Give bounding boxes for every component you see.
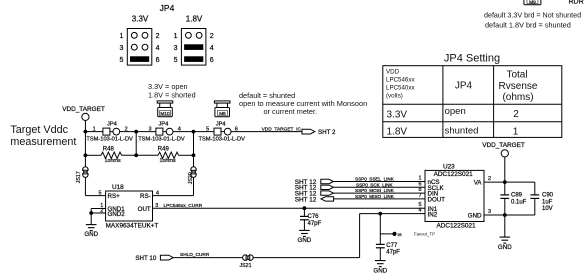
svg-text:GND2: GND2 [108, 211, 126, 218]
JP4 3.3V pin 4 circle [142, 44, 148, 50]
ground symbol U23 [500, 237, 511, 243]
svg-text:10V: 10V [542, 206, 553, 212]
junction dot VA/C89 [503, 180, 507, 184]
svg-text:2: 2 [210, 33, 214, 40]
svg-text:JS17: JS17 [76, 171, 82, 183]
U18 pin 2 GND2 [91, 212, 105, 214]
resistor R48 [101, 152, 122, 158]
JP4 3.3V shunt on pins 5-6 [130, 56, 149, 62]
junction dot drop A/top rail [134, 130, 138, 134]
svg-text:TSM-103-01-L-DV: TSM-103-01-L-DV [86, 136, 133, 142]
svg-text:2: 2 [125, 126, 128, 132]
wire down to ground [504, 215, 506, 237]
svg-text:JS20: JS20 [188, 172, 194, 184]
svg-text:SHT 10: SHT 10 [135, 255, 156, 262]
svg-text:MAX9634TEUK+T: MAX9634TEUK+T [106, 222, 159, 229]
wire VA rail [484, 181, 535, 183]
svg-text:VA: VA [474, 180, 483, 187]
svg-text:ADC122S021: ADC122S021 [437, 223, 477, 230]
svg-text:3: 3 [488, 209, 491, 215]
wire SSP0_SCK_LINK [334, 186, 426, 188]
junction dot VDD_TARGET/top rail [84, 130, 88, 134]
connector JP4 3.3V block outline [127, 29, 152, 66]
svg-text:GND: GND [498, 244, 512, 251]
test point VDD_TARGET circle (left) [82, 113, 89, 120]
jumper M9 (cut off at top edge) [524, 0, 541, 6]
junction dot U18 gnd [89, 211, 93, 215]
svg-text:U23: U23 [443, 163, 455, 170]
wire VDD_TARGET down to VA [504, 157, 506, 182]
svg-text:RDRV: RDRV [569, 0, 584, 5]
resistor R49 [158, 152, 179, 158]
svg-text:default 3.3V brd = Not shunted: default 3.3V brd = Not shunted [484, 12, 581, 20]
svg-text:C89: C89 [511, 192, 523, 198]
junction dot left/lower rail [84, 153, 88, 157]
adc U23 box [425, 170, 484, 221]
svg-text:SSP0_SCK_LINK: SSP0_SCK_LINK [356, 182, 393, 187]
wire SSP0_MISO_LINK [334, 198, 425, 200]
test point Favout_TP stub [380, 232, 401, 237]
svg-text:1ohms: 1ohms [160, 158, 176, 164]
wire SSP0_MOSI_LINK [334, 192, 426, 194]
svg-text:1: 1 [513, 127, 519, 138]
svg-text:4: 4 [418, 208, 421, 214]
svg-text:VDD_TARGET_IC: VDD_TARGET_IC [262, 127, 302, 133]
solder jumper JS20 [188, 167, 197, 185]
svg-text:SHT 12: SHT 12 [295, 196, 317, 203]
svg-text:SSP0_MOSI_LINK: SSP0_MOSI_LINK [355, 188, 395, 193]
wire VDD_TARGET to top rail [84, 121, 86, 132]
svg-text:DOUT: DOUT [428, 197, 446, 204]
JP4 1.8V pin 2 circle [196, 32, 202, 38]
wire OUT to U23 IN1 [153, 207, 426, 209]
jumper JP4 pins 1-2 on rail [93, 121, 128, 135]
jumper JP4 pins 5-6 on rail [206, 121, 238, 135]
svg-text:ADC122S021: ADC122S021 [434, 171, 474, 178]
svg-text:1: 1 [119, 33, 123, 40]
junction dot GND rail [503, 213, 507, 217]
jumper shunt symbol M8 [214, 101, 230, 117]
svg-text:C77: C77 [386, 243, 398, 249]
capacitor C90 [530, 182, 553, 215]
wire left vertical drop [84, 132, 86, 196]
svg-text:R48: R48 [103, 147, 115, 153]
svg-text:4: 4 [156, 191, 159, 197]
junction dot drop A/lower rail [134, 153, 138, 157]
svg-text:OUT: OUT [138, 206, 151, 213]
svg-text:JP4 Setting: JP4 Setting [444, 52, 500, 64]
svg-text:0.1uF: 0.1uF [511, 199, 527, 205]
svg-text:3: 3 [174, 45, 178, 52]
svg-text:measurement: measurement [10, 136, 76, 148]
svg-text:IN2: IN2 [428, 211, 438, 218]
connector JP4 1.8V block outline [181, 29, 206, 66]
U18 pin 1 GND1 [91, 208, 105, 210]
svg-text:7: 7 [418, 193, 421, 199]
svg-text:RS+: RS+ [108, 193, 121, 200]
wire top rail [85, 131, 302, 133]
junction dot drop B/top rail [192, 130, 196, 134]
op-amp U18 current monitor box [106, 191, 153, 221]
svg-text:1uF: 1uF [542, 199, 553, 205]
wire vertical drop A [135, 132, 137, 156]
svg-text:6: 6 [235, 126, 238, 132]
wire R48 to drop A [122, 154, 158, 156]
svg-text:VDD_TARGET: VDD_TARGET [62, 106, 105, 113]
svg-text:1.8V: 1.8V [387, 126, 408, 137]
svg-text:M8: M8 [219, 111, 226, 117]
svg-text:JP4: JP4 [160, 3, 175, 13]
junction dot drop B/lower rail [192, 153, 196, 157]
svg-text:or current meter.: or current meter. [264, 107, 318, 116]
wire SHLD_CURR [174, 257, 360, 259]
svg-text:JP4: JP4 [455, 81, 473, 92]
svg-text:1: 1 [93, 126, 96, 132]
JP4 3.3V pin 1 circle [131, 32, 137, 38]
jumper shunt symbol M10 [157, 101, 173, 117]
off-page arrow SHT 2 [302, 129, 315, 134]
solder jumper JS21 [239, 254, 253, 268]
svg-text:1ohms: 1ohms [105, 158, 121, 164]
capacitor C76 [300, 206, 322, 230]
ground symbol U18 [86, 225, 97, 231]
JP4 3.3V pin 2 circle [142, 32, 148, 38]
svg-text:JP4: JP4 [107, 121, 117, 127]
svg-text:1.8V = shorted: 1.8V = shorted [148, 91, 196, 100]
capacitor C89 [500, 182, 526, 215]
svg-text:47pF: 47pF [386, 250, 400, 256]
test point VDD_TARGET circle (right) [501, 150, 508, 157]
ground symbol C77 [375, 261, 386, 267]
JP4 1.8V pin 1 circle [186, 32, 192, 38]
svg-text:C90: C90 [542, 192, 554, 198]
jumper JP4 pins 3-4 on rail [148, 121, 180, 135]
svg-text:3: 3 [119, 45, 123, 52]
svg-text:RS-: RS- [140, 193, 151, 200]
svg-text:1.8V: 1.8V [186, 15, 203, 24]
svg-text:5: 5 [174, 57, 178, 64]
wire R49 to drop B [179, 154, 194, 156]
svg-text:JP4: JP4 [216, 121, 226, 127]
svg-text:C76: C76 [308, 214, 320, 220]
svg-text:4: 4 [156, 45, 160, 52]
svg-text:3.3V: 3.3V [387, 109, 408, 120]
svg-text:6: 6 [156, 57, 160, 64]
wire vertical drop B through JS20 [193, 132, 195, 196]
svg-text:5: 5 [206, 126, 209, 132]
wire into U18 RS+ [85, 195, 105, 197]
svg-text:SHT 2: SHT 2 [318, 129, 336, 136]
svg-text:2: 2 [513, 109, 519, 120]
svg-text:2: 2 [488, 176, 491, 182]
svg-text:3.3V: 3.3V [132, 15, 149, 24]
wire IN2 [360, 213, 425, 215]
svg-text:GND: GND [84, 231, 98, 238]
capacitor C77 [376, 212, 400, 261]
svg-text:SSP0_MISO_LINK: SSP0_MISO_LINK [355, 194, 395, 199]
solder jumper JS17 [76, 167, 89, 184]
svg-text:TSM-103-01-L-DV: TSM-103-01-L-DV [199, 136, 246, 142]
svg-text:LPC546xx_CURR: LPC546xx_CURR [164, 203, 203, 209]
svg-text:R49: R49 [158, 147, 170, 153]
svg-text:5: 5 [119, 57, 123, 64]
svg-text:Target Vddc: Target Vddc [10, 124, 68, 136]
wire lower rail [85, 154, 101, 156]
svg-text:GND: GND [298, 237, 312, 244]
svg-text:2: 2 [156, 33, 160, 40]
svg-text:open: open [445, 106, 466, 117]
svg-text:M9: M9 [529, 0, 536, 6]
svg-text:1: 1 [174, 33, 178, 40]
svg-text:JP4: JP4 [159, 121, 169, 127]
svg-text:VDD_TARGET: VDD_TARGET [482, 142, 525, 149]
svg-text:3: 3 [148, 126, 151, 132]
svg-text:SSP0_SSEL_LINK: SSP0_SSEL_LINK [355, 177, 395, 182]
svg-text:M10: M10 [160, 111, 170, 117]
svg-text:25: 25 [398, 233, 402, 237]
wire RS- to drop B [153, 195, 194, 197]
svg-text:5: 5 [98, 191, 101, 197]
ground symbol C76 [299, 230, 310, 236]
svg-text:4: 4 [210, 45, 214, 52]
wire SHLD up to IN2 [359, 214, 361, 258]
svg-text:2: 2 [100, 208, 103, 214]
svg-text:JS21: JS21 [239, 263, 251, 269]
svg-text:shunted: shunted [445, 126, 479, 137]
svg-text:47pF: 47pF [308, 221, 322, 227]
wire SSP0_SSEL_LINK [334, 181, 426, 183]
svg-text:GND: GND [373, 268, 387, 274]
JP4 1.8V shunt on pins 3-4 [184, 44, 203, 50]
svg-text:TSM-103-01-L-DV: TSM-103-01-L-DV [138, 136, 185, 142]
svg-text:U18: U18 [112, 184, 124, 191]
svg-text:Favout_TP: Favout_TP [414, 232, 435, 237]
JP4 3.3V pin 3 circle [131, 44, 137, 50]
svg-text:GND: GND [468, 213, 482, 220]
JP4 1.8V shunt on pins 5-6 [184, 56, 203, 62]
svg-text:4: 4 [178, 126, 181, 132]
svg-text:6: 6 [210, 57, 214, 64]
wire GND1/GND2 tie [90, 209, 92, 225]
table grid [383, 66, 562, 138]
svg-text:default 1.8V brd = shunted: default 1.8V brd = shunted [485, 20, 571, 29]
wire GND rail [484, 214, 535, 216]
